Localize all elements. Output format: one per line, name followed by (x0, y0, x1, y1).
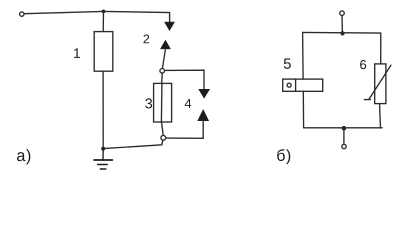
terminal node lower (161, 135, 166, 140)
wire top (terminal to junction) (24, 11, 103, 13)
wire (bottom rail to terminal) (343, 128, 345, 144)
wire bottom rail (304, 127, 383, 129)
terminal node middle (160, 69, 165, 74)
value label 1 (resistor) (74, 48, 80, 57)
arrester 2 up triangle (161, 40, 171, 49)
value label 2 (arrester) (143, 35, 149, 44)
wire (terminal to top rail) (341, 16, 343, 34)
wire right branch lower (380, 104, 381, 128)
resistor 1 body (94, 32, 113, 72)
varistor 6 foot (364, 99, 370, 101)
wire (resistor 1 bottom to ground junction) (102, 71, 104, 148)
fuse device 5 indicator circle (287, 83, 291, 87)
terminal top-left (20, 12, 24, 16)
node junction top (102, 10, 106, 14)
value label 4 (arrester) (185, 99, 192, 108)
wire top rail (303, 31, 381, 34)
wire (arrester 4 bottom to lower node) (166, 121, 203, 139)
wire (lower node down to ground rail) (103, 140, 163, 148)
node junction ground (101, 147, 105, 151)
wire (junction to resistor 1 top) (102, 11, 104, 31)
arrester 4 down triangle (199, 89, 210, 98)
resistor 3 body (154, 83, 172, 122)
varistor 6 body (375, 64, 386, 104)
fuse device 5 body (283, 79, 323, 91)
arrester 2 down triangle (165, 22, 175, 30)
varistor 6 diagonal stroke (369, 65, 391, 99)
wire (node to arrester 4 top) (165, 70, 204, 89)
caption b) (277, 149, 285, 161)
wire top (junction to arrester 2 branch) (104, 11, 170, 22)
wire through resistor 3 (161, 73, 164, 83)
value label 6 (varistor) (360, 60, 366, 69)
wire right branch upper (380, 33, 382, 64)
terminal top (circuit b) (340, 11, 345, 16)
ground (94, 149, 112, 169)
wire left branch upper (302, 32, 305, 79)
fuse device 5 divider (295, 79, 297, 91)
wire (arrester 2 to node terminal) (162, 49, 165, 69)
caption a) (17, 152, 25, 161)
value label 5 (fuse device) (284, 59, 291, 69)
wire left branch lower (302, 91, 304, 128)
node junction bottom rail (342, 126, 347, 131)
terminal bottom (circuit b) (342, 144, 346, 148)
value label 3 (resistor) (145, 98, 152, 108)
node junction top rail (340, 31, 344, 35)
arrester 4 up triangle (198, 110, 209, 121)
